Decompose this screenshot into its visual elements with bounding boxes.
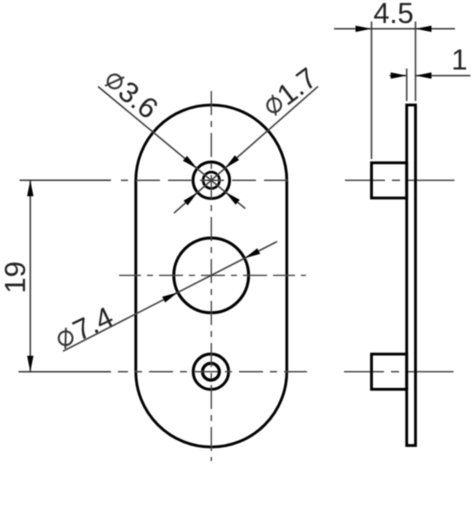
- svg-text:4.5: 4.5: [373, 0, 413, 30]
- svg-text:1: 1: [451, 45, 467, 77]
- svg-text:19: 19: [0, 261, 32, 293]
